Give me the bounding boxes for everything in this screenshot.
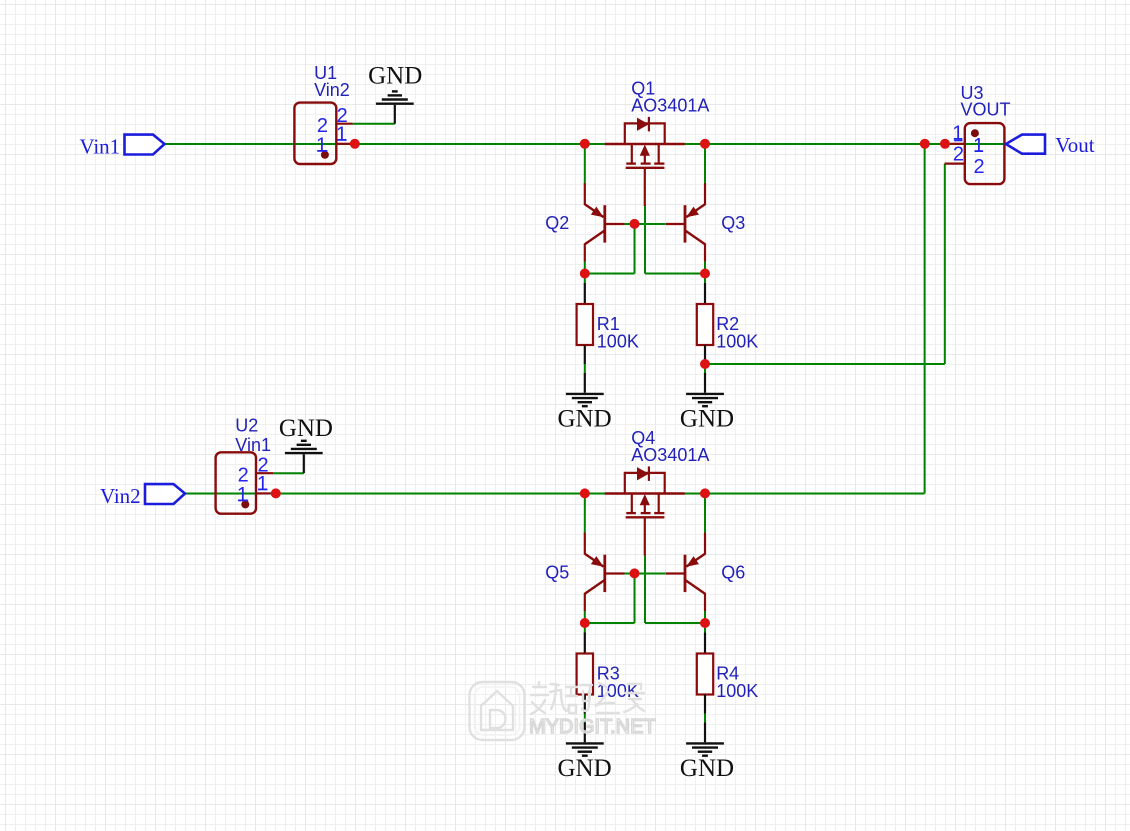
svg-text:GND: GND (279, 415, 333, 442)
svg-text:100K: 100K (597, 331, 639, 351)
port Vin2 (100, 484, 185, 508)
svg-text:Q5: Q5 (545, 563, 569, 583)
wire U1 pin2 to GND (353, 123, 395, 125)
svg-text:Vin1: Vin1 (79, 135, 120, 159)
svg-text:1: 1 (973, 135, 984, 157)
wire R4 bottom stub (704, 713, 706, 723)
wire R1 bottom stub (584, 364, 586, 374)
watermark logo mydigit (470, 682, 525, 740)
transistor Q1 AO3401A PMOS (605, 117, 685, 206)
resistor R2 100K (697, 283, 713, 364)
port Vin1 (79, 135, 164, 159)
ground GND R1 (558, 373, 612, 432)
svg-text:1: 1 (316, 135, 327, 157)
wire top rail Vin1 net (165, 143, 1006, 145)
svg-text:AO3401A: AO3401A (631, 445, 709, 465)
svg-text:GND: GND (558, 405, 612, 432)
ground GND R4 (680, 723, 734, 782)
junction Vout rail right (940, 139, 950, 149)
port Vout (1006, 133, 1095, 157)
wire Q2 collector to node (584, 261, 586, 274)
svg-text:Vout: Vout (1055, 133, 1094, 157)
transistor Q4 AO3401A PMOS (605, 466, 685, 555)
svg-text:100K: 100K (716, 681, 758, 701)
wire Q6 collector to node (704, 611, 706, 624)
junction base node top (630, 219, 640, 229)
transistor Q3 PNP (665, 183, 705, 261)
junction R1 top (580, 269, 590, 279)
svg-text:AO3401A: AO3401A (631, 96, 709, 116)
ground GND U1 (368, 63, 422, 124)
junction R4 top (700, 618, 710, 628)
svg-text:U2: U2 (235, 415, 258, 435)
resistor R1 100K (577, 283, 593, 364)
svg-text:Vin2: Vin2 (314, 80, 350, 100)
svg-text:1: 1 (336, 124, 347, 146)
wire Q2 emitter drop (584, 144, 586, 184)
wire Q5 base to node (623, 573, 665, 575)
svg-text:Vin2: Vin2 (100, 484, 141, 508)
wire R2 node horizontal (705, 363, 945, 365)
wire node to R3 (585, 622, 635, 624)
svg-text:GND: GND (680, 405, 734, 432)
connector U3 VOUT (945, 123, 1005, 184)
svg-text:100K: 100K (716, 331, 758, 351)
wire Q1 gate vertical (644, 205, 646, 274)
ground GND R2 (680, 373, 734, 432)
wire gate to R4 node (645, 622, 705, 624)
wire U2 pin2 to GND (273, 472, 304, 474)
ground GND R3 (558, 723, 612, 782)
transistor Q5 PNP (585, 533, 625, 611)
resistor R3 100K (577, 633, 593, 714)
junction R2 top (700, 269, 710, 279)
wire base node vertical (634, 224, 636, 274)
wire R1 top stub (584, 274, 586, 285)
resistor R4 100K (697, 633, 713, 714)
connector U1 Vin2 (294, 103, 352, 164)
connector U2 Vin1 (216, 452, 274, 513)
svg-text:MYDIGIT.NET: MYDIGIT.NET (529, 716, 656, 738)
transistor Q6 PNP (665, 533, 705, 611)
transistor Q2 PNP (585, 183, 625, 261)
junction R3 top (580, 618, 590, 628)
svg-text:2: 2 (973, 156, 984, 178)
wire Q6 emitter drop (704, 494, 706, 534)
junction U2 pin1 (271, 488, 281, 498)
svg-text:1: 1 (257, 473, 268, 495)
svg-text:VOUT: VOUT (961, 100, 1011, 120)
wire Q3 emitter drop (704, 144, 706, 184)
svg-text:1: 1 (237, 484, 248, 506)
junction Q6 top (700, 488, 710, 498)
junction U1 pin1 (350, 139, 360, 149)
wire gate to R2 node (645, 273, 705, 275)
junction Q2 top (580, 139, 590, 149)
ground GND U2 (279, 415, 333, 473)
svg-text:Vin1: Vin1 (235, 435, 271, 455)
wire Q5 emitter drop (584, 494, 586, 534)
svg-text:2: 2 (953, 143, 964, 165)
pin numbers U1 (316, 105, 348, 157)
svg-text:Q2: Q2 (545, 213, 569, 233)
wire R2 bottom stub (704, 364, 706, 374)
pin numbers U2 (237, 455, 269, 507)
wire R3 top stub (584, 623, 586, 634)
junction Vout rail left (920, 139, 930, 149)
junction base node bottom (630, 568, 640, 578)
junction Q5 top (580, 488, 590, 498)
wire Q4 gate vertical (644, 555, 646, 624)
junction Q3 top (700, 139, 710, 149)
svg-text:GND: GND (558, 755, 612, 782)
wire node to R1 (585, 273, 635, 275)
svg-text:GND: GND (680, 755, 734, 782)
svg-text:Q6: Q6 (721, 563, 745, 583)
svg-text:Q3: Q3 (721, 213, 745, 233)
wire R2 top stub (704, 274, 706, 285)
wire Vout to bottom rail vertical (924, 144, 926, 494)
wire R2 node to U3 pin2 vertical (944, 164, 946, 364)
wire Q2 base to node (623, 223, 665, 225)
wire Q3 collector to node (704, 261, 706, 274)
pin numbers U3 (952, 123, 984, 178)
wire lower base node vertical (634, 574, 636, 624)
watermark text shuma zhijia (531, 682, 644, 714)
svg-text:GND: GND (368, 63, 422, 90)
junction R2 bottom (700, 359, 710, 369)
wire Q5 collector to node (584, 611, 586, 624)
wire R3 bottom stub (584, 713, 586, 723)
wire R4 top stub (704, 623, 706, 634)
wire bottom rail Vin2 net (185, 493, 925, 495)
